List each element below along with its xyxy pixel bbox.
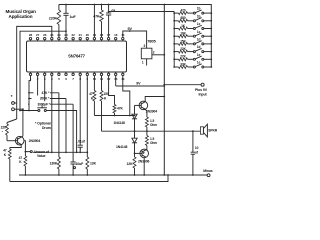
- wire drum line right: [46, 111, 76, 153]
- IC bottom pin circles: [29, 73, 31, 75]
- wire ground bus: [19, 174, 207, 176]
- diode D2 1N4148: [134, 131, 136, 138]
- key switch 1c: [193, 35, 195, 37]
- svg-text:20: 20: [86, 33, 90, 37]
- resistor R 13K: [86, 76, 88, 158]
- junction dot 5V line: [129, 30, 131, 32]
- trimmer pot: [12, 102, 15, 105]
- resistor R 47K pin 10: [93, 76, 95, 91]
- svg-text:1N4148: 1N4148: [116, 145, 127, 149]
- resistor R 220K: [58, 5, 60, 11]
- keyboard row resistor 470: [173, 12, 175, 14]
- svg-text:22: 22: [72, 33, 76, 37]
- svg-text:2N3904: 2N3904: [29, 139, 41, 143]
- svg-text:27K: 27K: [180, 55, 186, 59]
- transistor Q3 2N3906: [140, 149, 149, 158]
- wire pin 12 branch: [109, 76, 115, 105]
- svg-text:SN76477: SN76477: [68, 54, 86, 59]
- capacitor C 1uF: [65, 5, 67, 14]
- junction dot keyboard feed: [108, 11, 110, 13]
- wire pin 19 to bus: [93, 5, 95, 38]
- capacitor C 10uF speaker: [192, 131, 194, 152]
- wire 9V line: [115, 76, 117, 87]
- svg-text:1d: 1d: [197, 38, 201, 42]
- wire Q1 base node down: [24, 141, 30, 152]
- IC U1 SN76477 body: [27, 41, 127, 72]
- capacitor C 10uF bottom: [72, 104, 74, 162]
- wire output node line: [102, 130, 201, 132]
- wire L to cap bottom: [20, 31, 66, 110]
- svg-text:16: 16: [114, 33, 118, 37]
- svg-text:220K: 220K: [49, 16, 58, 20]
- wire plus 9V input: [164, 84, 201, 86]
- wire 5V line pin 15 to 7805: [123, 31, 147, 48]
- svg-text:1uF: 1uF: [70, 15, 77, 19]
- svg-text:1b: 1b: [197, 14, 201, 18]
- wire L to pin 25: [17, 26, 52, 119]
- wire top supply bus: [59, 5, 211, 68]
- svg-text:27: 27: [36, 33, 40, 37]
- keyboard row resistor 27K: [173, 58, 175, 60]
- svg-text:21: 21: [79, 33, 83, 37]
- svg-text:Ohm: Ohm: [150, 123, 157, 127]
- svg-text:22K: 22K: [180, 47, 186, 51]
- resistor R .5 ohm top: [145, 117, 148, 127]
- svg-text:9V: 9V: [136, 81, 141, 85]
- wire branch line 2: [29, 98, 66, 100]
- resistor R .5 ohm bottom: [146, 131, 148, 135]
- svg-text:Minus: Minus: [203, 169, 213, 173]
- terminal plus 9V: [201, 83, 204, 86]
- wire Q1 collector: [22, 109, 24, 136]
- diode D1 1N4148: [132, 114, 137, 119]
- wire branch line 3: [29, 103, 73, 105]
- svg-text:1d: 1d: [197, 45, 201, 49]
- svg-text:1c: 1c: [197, 22, 201, 26]
- svg-text:47K: 47K: [117, 107, 123, 111]
- keyboard row resistor 33K: [173, 66, 175, 68]
- svg-text:7805: 7805: [147, 39, 156, 44]
- transistor Q1 2N3904: [15, 136, 24, 145]
- svg-text:47K *: 47K *: [42, 91, 51, 95]
- label 47K star: [34, 90, 51, 95]
- wire pin 3 branch: [44, 76, 46, 105]
- svg-text:2N3904: 2N3904: [146, 110, 157, 114]
- wire Q3 collector: [143, 158, 145, 175]
- wire lower return line: [10, 175, 168, 182]
- wire branch line 1: [29, 92, 59, 94]
- junction dot cap bottom: [65, 30, 67, 32]
- capacitor C .01uF: [79, 76, 81, 146]
- wire drum line left: [20, 110, 38, 112]
- wire base bus top: [134, 105, 136, 114]
- key switch 1c: [193, 28, 195, 30]
- svg-text:10: 10: [195, 146, 199, 150]
- svg-text:1N4148: 1N4148: [114, 121, 125, 125]
- key switch 1e: [193, 66, 195, 68]
- resistor R 47K base: [113, 105, 116, 114]
- svg-text:.05: .05: [111, 9, 116, 13]
- resistor R 12K: [134, 153, 136, 157]
- svg-text:33K: 33K: [180, 62, 186, 66]
- svg-text:470: 470: [180, 9, 185, 13]
- svg-text:12K: 12K: [127, 162, 134, 166]
- key switch 1b: [193, 20, 195, 22]
- svg-text:Plus 9V: Plus 9V: [195, 88, 208, 92]
- terminal minus: [207, 174, 210, 177]
- key switch 1b: [193, 12, 195, 14]
- speaker SPKR: [200, 127, 203, 134]
- svg-text:13K: 13K: [90, 161, 97, 165]
- svg-text:.01uf: .01uf: [77, 140, 85, 144]
- wire pin 2 branch: [37, 76, 39, 99]
- keyboard row resistor 1K: [173, 28, 175, 30]
- resistor R 130K: [58, 93, 60, 157]
- svg-text:SPKR: SPKR: [208, 129, 217, 133]
- svg-text:26: 26: [43, 33, 47, 37]
- wire node line: [33, 151, 87, 153]
- svg-text:10uF: 10uF: [76, 162, 84, 166]
- svg-text:Value: Value: [37, 154, 46, 158]
- svg-text:Application: Application: [9, 14, 33, 19]
- svg-text:1c: 1c: [197, 30, 201, 34]
- wire Q1 emitter to R: [10, 145, 21, 148]
- keyboard row resistor 10K: [173, 35, 175, 37]
- svg-text:47K: 47K: [93, 15, 100, 19]
- junction dots on top bus: [65, 4, 67, 6]
- label 200K star: [32, 96, 51, 101]
- wire keyboard bus feed: [109, 11, 175, 13]
- key switch 1d: [193, 51, 195, 53]
- wire plus 9V rail: [163, 5, 165, 176]
- wire 7805 output: [152, 54, 164, 56]
- key switch 1d: [193, 43, 195, 45]
- resistor R 220: [7, 119, 17, 123]
- resistor R 150K pin 11: [101, 76, 103, 91]
- wire pin 6 column: [65, 99, 67, 153]
- resistor R 47K pin 18: [101, 5, 103, 11]
- svg-text:Input: Input: [199, 93, 208, 97]
- svg-text:Drum: Drum: [42, 126, 51, 130]
- wire Q2 emitter: [145, 109, 147, 117]
- terminal unsure node: [30, 151, 32, 153]
- keyboard row resistor 22K: [173, 51, 175, 53]
- pushbutton drum switch: [38, 110, 40, 112]
- resistor R 47K emitter: [8, 149, 11, 159]
- wire Q2 collector: [145, 97, 164, 102]
- transistor Q2 2N3904: [139, 101, 148, 110]
- resistor R 47K second: [24, 152, 26, 156]
- svg-text:28: 28: [29, 33, 33, 37]
- svg-text:* Optional: * Optional: [35, 121, 51, 125]
- label 3900pF star: [30, 101, 51, 106]
- wire pin 14 branch: [123, 76, 130, 116]
- keyboard row resistor 15K: [173, 43, 175, 45]
- capacitor C .05 pin 17: [108, 5, 110, 14]
- svg-text:1e: 1e: [197, 53, 201, 57]
- svg-text:1b: 1b: [197, 7, 201, 11]
- svg-text:130K: 130K: [50, 161, 58, 165]
- svg-text:220: 220: [1, 126, 6, 130]
- svg-text:3900pF *: 3900pF *: [37, 102, 50, 106]
- key switch 1e: [193, 58, 195, 60]
- wire pin 1 column: [29, 76, 31, 111]
- wire Q3 emitter: [145, 149, 148, 151]
- svg-text:Ohm: Ohm: [150, 141, 157, 145]
- wire base feed: [115, 115, 135, 117]
- svg-text:10K: 10K: [180, 32, 186, 36]
- keyboard row resistor 680: [173, 20, 175, 22]
- svg-text:680: 680: [180, 16, 185, 20]
- svg-text:15K: 15K: [180, 39, 186, 43]
- wire 7805 ground stub: [146, 59, 148, 66]
- regulator U2 7805 body: [141, 48, 152, 59]
- svg-text:1e: 1e: [197, 61, 201, 65]
- IC top pin circles: [29, 37, 31, 39]
- wire pin 4 column: [51, 76, 53, 153]
- wire keyboard left bus: [173, 12, 175, 68]
